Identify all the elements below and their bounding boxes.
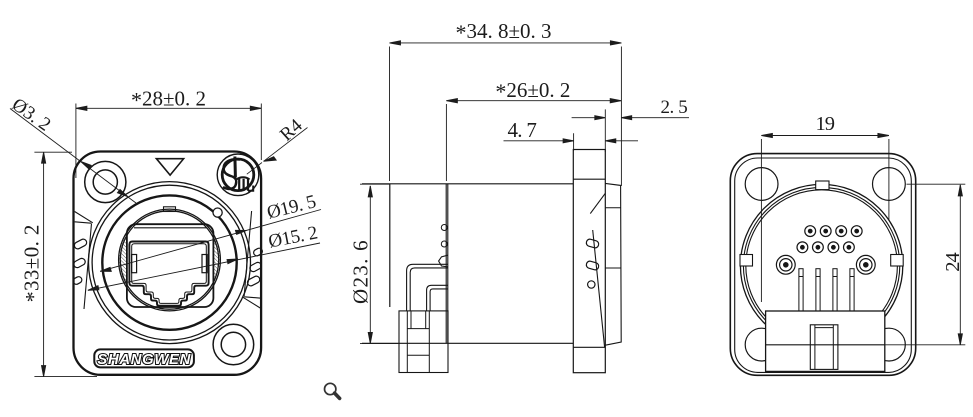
svg-text:*28±0. 2: *28±0. 2: [131, 87, 206, 113]
svg-text:4. 7: 4. 7: [507, 118, 536, 142]
svg-text:*34. 8±0. 3: *34. 8±0. 3: [455, 19, 551, 45]
svg-text:24: 24: [942, 253, 964, 272]
svg-text:2. 5: 2. 5: [660, 97, 687, 118]
svg-text:19: 19: [815, 113, 834, 135]
svg-text:*33±0. 2: *33±0. 2: [20, 224, 46, 302]
svg-text:SHANGWEN: SHANGWEN: [97, 352, 191, 368]
svg-text:*26±0. 2: *26±0. 2: [495, 78, 570, 104]
svg-text:Ø23. 6: Ø23. 6: [348, 239, 372, 304]
